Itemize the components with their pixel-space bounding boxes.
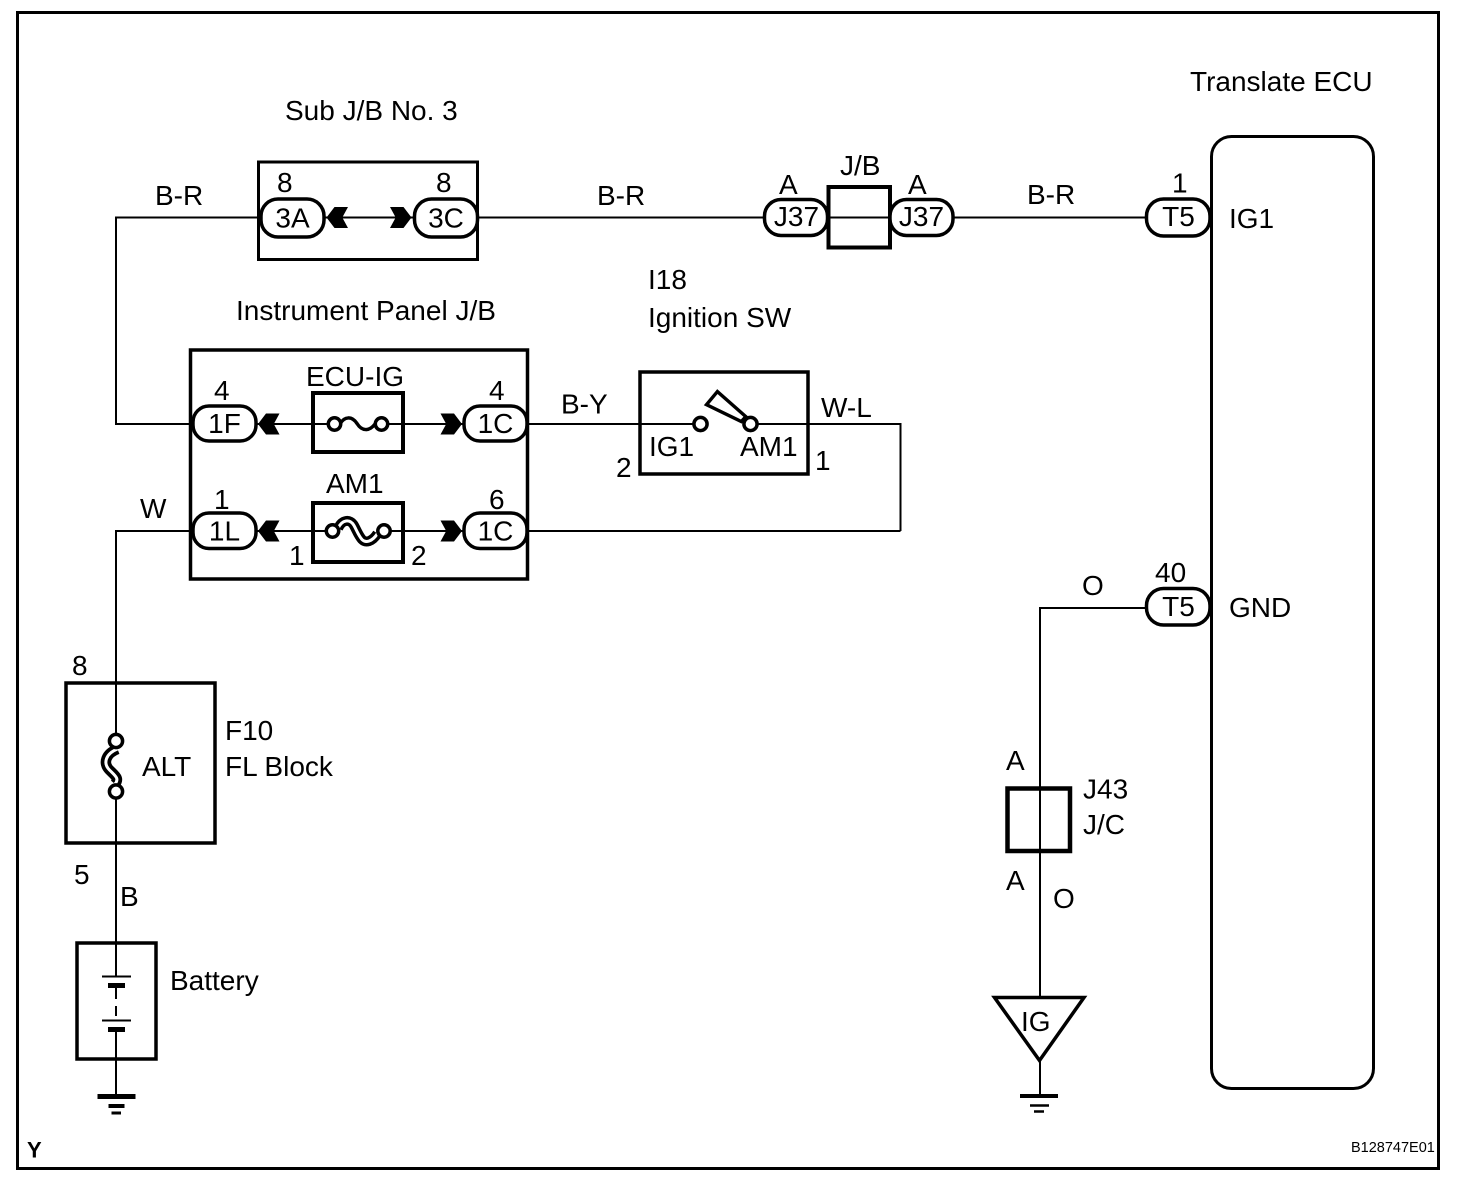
- svg-text:B: B: [120, 881, 139, 912]
- svg-text:1C: 1C: [478, 408, 514, 439]
- svg-text:2: 2: [616, 452, 632, 483]
- svg-text:F10: F10: [225, 715, 273, 746]
- svg-text:A: A: [1006, 745, 1025, 776]
- svg-text:4: 4: [489, 375, 505, 406]
- svg-text:T5: T5: [1162, 201, 1195, 232]
- svg-text:1: 1: [1172, 168, 1188, 199]
- svg-text:GND: GND: [1229, 592, 1291, 623]
- svg-text:J/C: J/C: [1083, 809, 1125, 840]
- svg-text:1: 1: [289, 540, 305, 571]
- svg-text:J37: J37: [774, 201, 819, 232]
- svg-text:T5: T5: [1162, 591, 1195, 622]
- svg-text:J37: J37: [899, 201, 944, 232]
- svg-text:1: 1: [214, 484, 230, 515]
- svg-text:O: O: [1082, 570, 1104, 601]
- svg-text:3C: 3C: [428, 203, 464, 234]
- svg-text:3A: 3A: [275, 203, 310, 234]
- svg-text:8: 8: [277, 167, 293, 198]
- svg-text:Y: Y: [27, 1138, 42, 1163]
- svg-text:ALT: ALT: [142, 751, 191, 782]
- svg-text:W: W: [140, 493, 167, 524]
- svg-text:1F: 1F: [208, 408, 241, 439]
- svg-text:B-R: B-R: [155, 180, 203, 211]
- svg-text:Ignition SW: Ignition SW: [648, 302, 792, 333]
- svg-text:1: 1: [815, 445, 831, 476]
- svg-text:Battery: Battery: [170, 965, 259, 996]
- svg-text:2: 2: [411, 540, 427, 571]
- svg-text:A: A: [1006, 865, 1025, 896]
- svg-text:4: 4: [214, 375, 230, 406]
- svg-text:Instrument Panel J/B: Instrument Panel J/B: [236, 295, 496, 326]
- svg-text:1L: 1L: [209, 516, 240, 547]
- svg-text:O: O: [1053, 883, 1075, 914]
- svg-text:Translate ECU: Translate ECU: [1190, 66, 1373, 97]
- svg-text:8: 8: [72, 650, 88, 681]
- svg-text:A: A: [908, 169, 927, 200]
- svg-text:IG: IG: [1021, 1006, 1051, 1037]
- svg-text:ECU-IG: ECU-IG: [306, 361, 404, 392]
- svg-text:I18: I18: [648, 264, 687, 295]
- svg-text:A: A: [779, 169, 798, 200]
- svg-text:J/B: J/B: [840, 150, 880, 181]
- svg-text:IG1: IG1: [649, 431, 694, 462]
- svg-text:Sub J/B No. 3: Sub J/B No. 3: [285, 95, 458, 126]
- svg-text:1C: 1C: [478, 516, 514, 547]
- svg-text:B-R: B-R: [597, 180, 645, 211]
- svg-text:40: 40: [1155, 557, 1186, 588]
- svg-text:B-R: B-R: [1027, 179, 1075, 210]
- svg-text:FL Block: FL Block: [225, 751, 334, 782]
- svg-text:8: 8: [436, 167, 452, 198]
- svg-text:6: 6: [489, 484, 505, 515]
- svg-text:AM1: AM1: [740, 431, 798, 462]
- svg-text:W-L: W-L: [821, 392, 872, 423]
- svg-text:AM1: AM1: [326, 468, 384, 499]
- svg-text:J43: J43: [1083, 774, 1128, 805]
- svg-text:IG1: IG1: [1229, 203, 1274, 234]
- svg-text:5: 5: [74, 859, 90, 890]
- svg-text:B128747E01: B128747E01: [1351, 1140, 1435, 1156]
- svg-text:B-Y: B-Y: [561, 389, 608, 420]
